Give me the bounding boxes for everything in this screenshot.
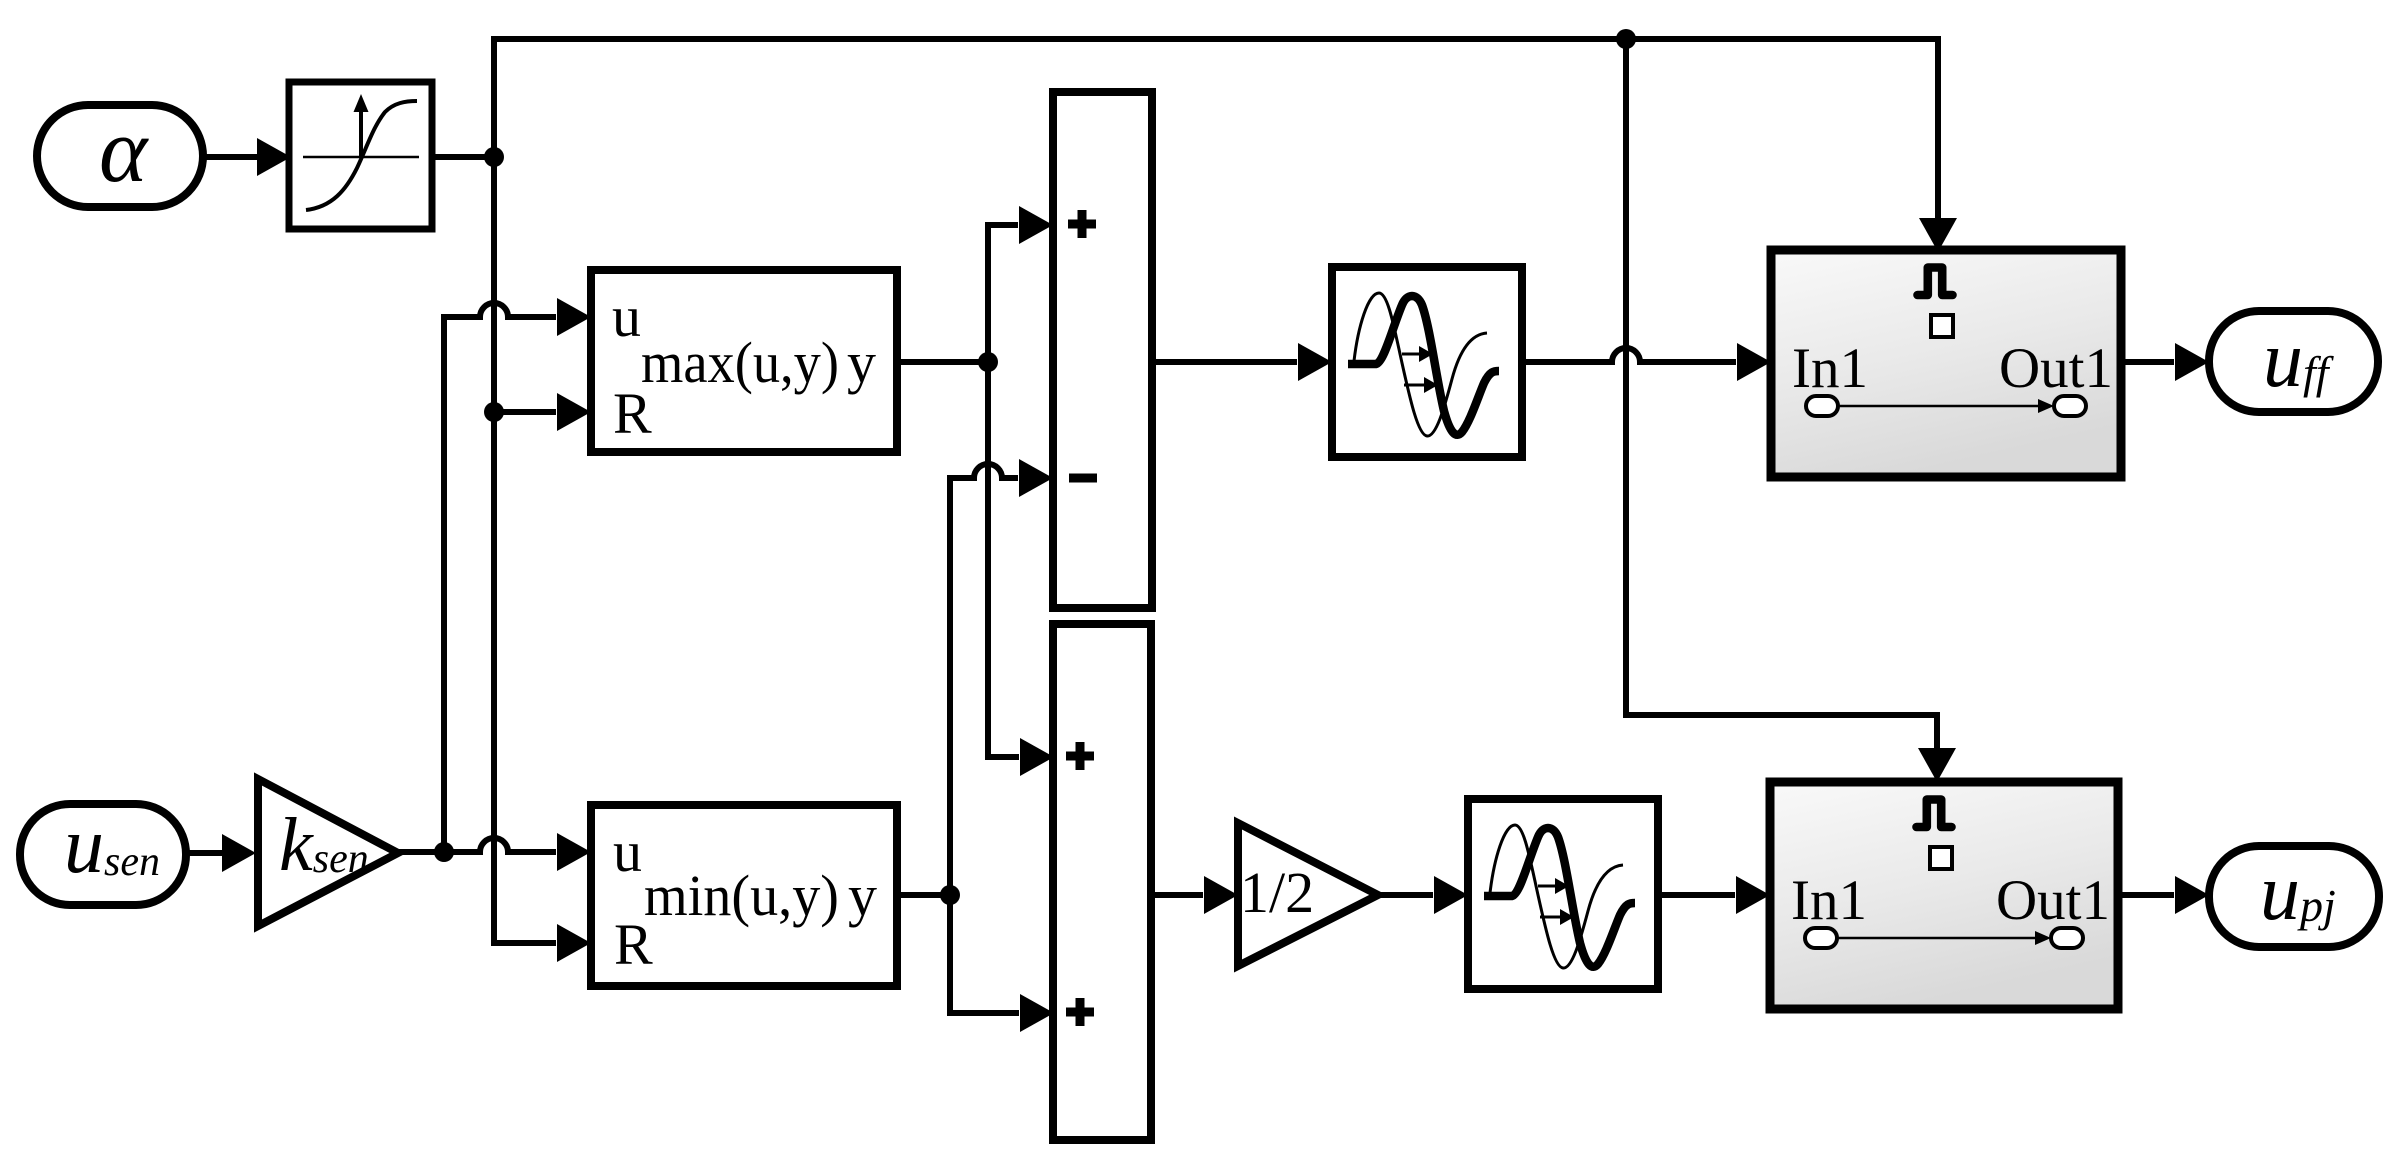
saturation block — [289, 82, 432, 229]
svg-text:u: u — [612, 284, 641, 349]
wire TD2 to subsystem U2 In1 — [1659, 876, 1770, 914]
wire node E up to sum S1 plus — [988, 206, 1053, 362]
wire max y to node E — [897, 359, 988, 365]
wire sum S2 to gain 1/2 — [1151, 876, 1238, 914]
wire gain 1/2 to transport delay TD2 — [1378, 876, 1468, 914]
input port alpha — [37, 99, 203, 207]
wire saturation to node A — [432, 154, 494, 160]
wire k_sen to min u (hop over node-A line) — [398, 833, 591, 871]
output port u_ff — [2209, 311, 2378, 412]
node C junction — [484, 402, 504, 422]
wire node C to max R — [494, 393, 591, 431]
svg-text:In1: In1 — [1792, 337, 1868, 400]
transport delay block TD1 — [1332, 267, 1522, 457]
wire node D up to max u (hop over node-A line) — [444, 298, 591, 852]
svg-text:1/2: 1/2 — [1240, 860, 1314, 925]
min block (MinMax Running Resettable) — [591, 805, 897, 986]
max block (MinMax Running Resettable) — [591, 270, 897, 452]
wire node E down to sum S2 plus — [988, 362, 1054, 776]
wire U1 Out1 to output port u_ff — [2121, 343, 2209, 381]
svg-text:Out1: Out1 — [1999, 337, 2113, 400]
gain block 1/2 — [1238, 823, 1378, 966]
svg-text:In1: In1 — [1791, 869, 1867, 932]
svg-text:min(u,y): min(u,y) — [644, 863, 839, 928]
node B junction on top bus — [1616, 29, 1636, 49]
wire TD1 to subsystem U1 In1 (hop over node-B line) — [1519, 343, 1771, 381]
triggered subsystem U2 — [1770, 782, 2118, 1009]
wire node F down to sum S2 plus — [950, 895, 1054, 1032]
triggered subsystem U1 — [1771, 250, 2121, 477]
wire U2 Out1 to output port u_pj — [2118, 876, 2209, 914]
wire node A up and top bus to subsystem U1 trigger — [494, 39, 1957, 252]
wire node F up to sum S1 minus (hop over node-E line) — [950, 459, 1053, 895]
transport delay block TD2 — [1468, 799, 1658, 989]
svg-text:max(u,y): max(u,y) — [641, 330, 839, 395]
svg-text:u: u — [613, 819, 642, 884]
gain block k_sen — [258, 779, 398, 926]
wire min y to node F — [897, 892, 950, 898]
wire sum S1 to transport delay TD1 — [1152, 343, 1332, 381]
svg-text:α: α — [99, 99, 149, 201]
sum block S2 — [1053, 624, 1151, 1140]
svg-text:y: y — [847, 330, 876, 395]
node A junction — [484, 147, 504, 167]
node F junction — [940, 885, 960, 905]
sum block S1 — [1053, 92, 1152, 608]
node D junction on k_sen output — [434, 842, 454, 862]
wire node B down to subsystem U2 trigger — [1626, 39, 1956, 782]
svg-text:y: y — [848, 863, 877, 928]
node E junction — [978, 352, 998, 372]
output port u_pj — [2209, 846, 2379, 947]
wire alpha to saturation — [203, 138, 291, 176]
wire u_sen to gain k_sen — [186, 834, 256, 872]
svg-text:Out1: Out1 — [1996, 869, 2110, 932]
input port u_sen — [20, 802, 186, 905]
wire node A down to min R with branch node C — [494, 157, 591, 962]
